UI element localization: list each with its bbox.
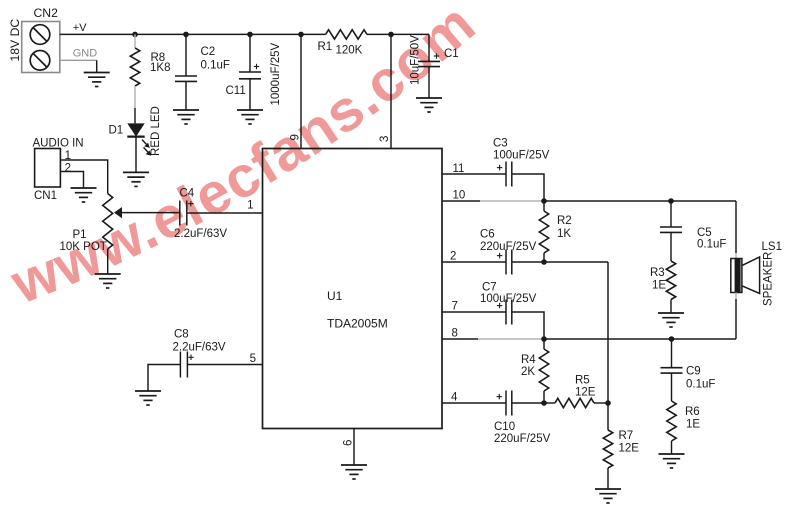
svg-text:AUDIO IN: AUDIO IN bbox=[33, 138, 84, 150]
svg-text:R6: R6 bbox=[685, 406, 700, 418]
resistor R2 leads bbox=[543, 201, 545, 211]
wire pin2 net bbox=[512, 261, 608, 263]
wire speaker top lead bbox=[735, 253, 737, 259]
ground C1 bbox=[416, 98, 442, 112]
node junction R5/R7 bbox=[605, 400, 611, 406]
node junction C2/+V bbox=[183, 32, 189, 38]
potentiometer P1 wiper arrow bbox=[114, 207, 122, 218]
svg-text:LS1: LS1 bbox=[762, 241, 782, 253]
node junction R2 bottom bbox=[541, 259, 547, 265]
svg-text:120K: 120K bbox=[336, 45, 363, 57]
wire +V rail from CN2 to R1 bbox=[60, 33, 326, 35]
capacitor C5 bbox=[660, 226, 682, 228]
svg-text:GND: GND bbox=[73, 48, 98, 60]
capacitor C2 bbox=[175, 75, 197, 77]
svg-text:R2: R2 bbox=[557, 215, 572, 227]
svg-text:0.1uF: 0.1uF bbox=[686, 379, 715, 391]
wire pin8 net bbox=[544, 338, 736, 340]
svg-text:R3: R3 bbox=[650, 267, 665, 279]
svg-text:5: 5 bbox=[250, 353, 256, 365]
svg-text:C1: C1 bbox=[444, 48, 459, 60]
resistor R1 bbox=[326, 30, 367, 39]
wire C5 top bbox=[670, 201, 672, 227]
svg-text:C10: C10 bbox=[494, 421, 515, 433]
node junction C11/+V bbox=[247, 32, 253, 38]
ground C8 bbox=[135, 391, 161, 405]
node junction R2 top bbox=[541, 198, 547, 204]
svg-text:C4: C4 bbox=[180, 188, 195, 200]
wire C2 bottom bbox=[185, 81, 187, 110]
wire pin4 to C10 bbox=[442, 402, 506, 404]
diode D1 light arrow 1 bbox=[142, 140, 148, 146]
capacitor C1 bbox=[418, 60, 440, 62]
svg-text:U1: U1 bbox=[327, 289, 343, 303]
wire CN2 GND horizontal bbox=[60, 59, 97, 61]
capacitor C9 bbox=[661, 367, 683, 369]
wire pin 3 bbox=[390, 34, 392, 148]
capacitor C6 bbox=[505, 250, 507, 275]
connector CN2 body bbox=[22, 22, 60, 73]
wire C10 to R4 node bbox=[512, 402, 544, 404]
capacitor C7 bbox=[505, 300, 507, 325]
wire pin 9 bbox=[300, 34, 302, 148]
connector CN2 screw terminal 1 bbox=[30, 25, 50, 45]
wire P1 bottom bbox=[107, 249, 109, 274]
wire C5 to R3 bbox=[670, 232, 672, 261]
svg-text:12E: 12E bbox=[575, 387, 596, 399]
diode D1 LED bbox=[127, 123, 144, 136]
svg-text:100uF/25V: 100uF/25V bbox=[480, 293, 537, 305]
speaker LS1 driver bbox=[731, 259, 742, 293]
svg-text:C9: C9 bbox=[686, 366, 701, 378]
node junction pin3/+V bbox=[388, 32, 394, 38]
connector CN2 screw terminal 2 bbox=[30, 51, 50, 71]
potentiometer P1 bbox=[103, 194, 113, 250]
svg-text:C3: C3 bbox=[493, 138, 508, 150]
svg-text:10uF/50V: 10uF/50V bbox=[409, 35, 421, 85]
svg-text:1K: 1K bbox=[557, 228, 571, 240]
svg-text:TDA2005M: TDA2005M bbox=[327, 317, 388, 331]
svg-text:4: 4 bbox=[451, 392, 458, 404]
wire speaker bottom lead bbox=[735, 293, 737, 300]
wire pin8 stub gray bbox=[478, 338, 544, 340]
ground P1 bbox=[95, 274, 121, 288]
ground CN2 bbox=[84, 73, 110, 87]
svg-text:7: 7 bbox=[452, 301, 458, 313]
ground R6 bbox=[659, 454, 685, 468]
svg-text:11: 11 bbox=[453, 163, 465, 175]
wire C8 to ground bbox=[148, 365, 181, 392]
svg-text:C5: C5 bbox=[697, 227, 712, 239]
resistor R6 bbox=[667, 401, 676, 441]
wire C11 bottom bbox=[249, 79, 251, 110]
wire C1 bottom bbox=[428, 67, 430, 98]
node junction C5 top bbox=[668, 198, 674, 204]
svg-text:6: 6 bbox=[343, 440, 355, 446]
svg-text:8: 8 bbox=[452, 328, 458, 340]
wire pin11 to C3 bbox=[442, 173, 506, 175]
node junction pin9/+V bbox=[298, 32, 304, 38]
resistor R2 bbox=[539, 211, 548, 253]
wire C3 to pin10 node bbox=[512, 174, 544, 201]
wire R8 to D1 gray lead bbox=[134, 86, 136, 108]
wire C2 top bbox=[185, 34, 187, 76]
ground C2 bbox=[173, 110, 199, 124]
wire pin5 bbox=[188, 364, 263, 366]
connector CN1 body bbox=[35, 149, 61, 188]
svg-text:2: 2 bbox=[65, 163, 71, 175]
ground CN1 pin2 bbox=[71, 188, 97, 202]
svg-text:1000uF/25V: 1000uF/25V bbox=[270, 43, 282, 106]
speaker LS1 cone bbox=[742, 257, 760, 294]
svg-text:220uF/25V: 220uF/25V bbox=[480, 241, 537, 253]
svg-text:D1: D1 bbox=[109, 125, 124, 137]
svg-text:1K8: 1K8 bbox=[150, 62, 170, 74]
wire R3 bottom bbox=[670, 300, 672, 314]
wire pin6 bbox=[353, 429, 355, 466]
svg-text:+V: +V bbox=[73, 22, 87, 34]
wire C7 to pin8 node bbox=[512, 312, 544, 339]
wire C9 to R6 bbox=[671, 373, 673, 401]
decorative watermark text bbox=[2, 0, 488, 317]
wire pin10 to speaker bbox=[735, 201, 737, 253]
wire CN1 pin1 bbox=[60, 160, 107, 194]
node junction R8/+V bbox=[132, 32, 138, 38]
svg-text:10: 10 bbox=[453, 190, 466, 202]
wire C11 top bbox=[249, 34, 251, 72]
svg-text:C6: C6 bbox=[480, 229, 495, 241]
svg-text:1E: 1E bbox=[652, 280, 666, 292]
ground R7 bbox=[595, 489, 621, 503]
wire CN2 GND vertical bbox=[96, 60, 98, 72]
svg-text:R4: R4 bbox=[521, 354, 536, 366]
wire +V rail R1 to C1 branch bbox=[367, 33, 429, 35]
node junction R4 bottom bbox=[541, 400, 547, 406]
wire D1 to ground bbox=[135, 137, 137, 173]
ground R3 bbox=[658, 313, 684, 327]
svg-text:220uF/25V: 220uF/25V bbox=[494, 433, 551, 445]
svg-text:C7: C7 bbox=[482, 282, 497, 294]
svg-text:2: 2 bbox=[450, 251, 456, 263]
resistor R8 bbox=[130, 48, 139, 86]
svg-text:SPEAKER: SPEAKER bbox=[763, 252, 775, 306]
wire pin7 to C7 bbox=[442, 311, 506, 313]
wire pin8 to speaker bbox=[735, 299, 737, 339]
diode D1 light arrow 2 bbox=[144, 147, 150, 153]
capacitor C10 bbox=[505, 391, 507, 416]
wire CN1 pin2 bbox=[60, 172, 83, 189]
resistor R5 leads bbox=[544, 402, 555, 404]
wire C4 to pin1 bbox=[187, 212, 263, 214]
svg-text:0.1uF: 0.1uF bbox=[697, 239, 726, 251]
wire pin10 stub gray bbox=[480, 200, 544, 202]
wire pin2 to C6 bbox=[442, 261, 506, 263]
svg-text:10K POT: 10K POT bbox=[60, 241, 107, 253]
wire pin10 stub black bbox=[442, 200, 480, 202]
svg-text:R1: R1 bbox=[318, 41, 333, 53]
svg-text:R7: R7 bbox=[619, 430, 634, 442]
svg-text:CN1: CN1 bbox=[34, 190, 57, 202]
wire R6 bottom bbox=[671, 441, 673, 454]
svg-text:0.1uF: 0.1uF bbox=[201, 60, 230, 72]
wire pin10 net bbox=[544, 200, 736, 202]
svg-text:2.2uF/63V: 2.2uF/63V bbox=[174, 228, 227, 240]
capacitor C11 bbox=[239, 71, 261, 73]
svg-text:18V DC: 18V DC bbox=[8, 19, 22, 62]
svg-text:P1: P1 bbox=[73, 229, 87, 241]
svg-text:CN2: CN2 bbox=[34, 6, 59, 20]
resistor R3 bbox=[666, 261, 675, 300]
op-amp U1 TDA2005M body bbox=[263, 149, 443, 429]
wire pin8 stub black bbox=[442, 338, 478, 340]
ground pin6 bbox=[341, 465, 367, 479]
resistor R4 bbox=[539, 349, 548, 391]
svg-text:RED LED: RED LED bbox=[150, 106, 162, 156]
resistor R7 bbox=[603, 430, 612, 468]
svg-text:C8: C8 bbox=[174, 329, 189, 341]
node junction C9 top bbox=[669, 336, 675, 342]
wire R8 top lead bbox=[134, 34, 136, 48]
svg-text:1: 1 bbox=[247, 200, 253, 212]
capacitor C4 bbox=[179, 201, 181, 226]
svg-text:3: 3 bbox=[379, 136, 391, 142]
wire R8 to D1 bbox=[134, 108, 136, 123]
capacitor C3 bbox=[505, 162, 507, 187]
svg-text:2.2uF/63V: 2.2uF/63V bbox=[173, 342, 226, 354]
resistor R4 leads bbox=[543, 339, 545, 349]
node junction R4 top bbox=[541, 336, 547, 342]
svg-text:2K: 2K bbox=[521, 366, 535, 378]
wire C1 branch bbox=[428, 34, 430, 61]
svg-text:9: 9 bbox=[290, 134, 302, 140]
ground C11 bbox=[237, 110, 263, 124]
wire pin2 down to R5 node bbox=[607, 262, 609, 403]
svg-text:100uF/25V: 100uF/25V bbox=[493, 150, 550, 162]
svg-text:1E: 1E bbox=[686, 419, 700, 431]
capacitor C8 bbox=[179, 352, 181, 378]
svg-text:C2: C2 bbox=[201, 46, 216, 58]
wire C9 top bbox=[671, 339, 673, 368]
svg-text:R5: R5 bbox=[575, 375, 590, 387]
resistor R7 leads bbox=[607, 403, 609, 430]
resistor R5 bbox=[555, 398, 594, 407]
svg-text:C11: C11 bbox=[226, 85, 246, 97]
ground D1 bbox=[123, 172, 149, 186]
svg-text:12E: 12E bbox=[619, 443, 640, 455]
